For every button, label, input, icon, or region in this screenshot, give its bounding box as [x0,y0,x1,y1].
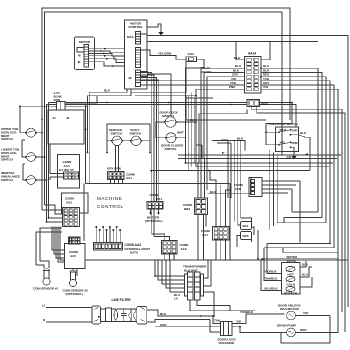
line filter input connector [92,306,101,324]
ground pressure switch [287,153,297,160]
wire left trunk 4 [49,103,64,219]
wire drain pump bottom loop [281,316,330,344]
wire door unlock motor left label [240,310,254,314]
line filter label [112,298,132,302]
wire transformer secondary right [204,260,215,316]
wire motor control JP bundle 3 [141,78,157,202]
wire motor control JP bundle 2 [141,75,155,202]
transformer T1 [174,265,207,301]
svg-text:PRESSURE SWITCH: PRESSURE SWITCH [269,122,298,126]
wire conn AA4 left stubs [50,144,64,180]
junction dots 2 [19,67,331,317]
wire motor control JP to door lock switch [148,74,172,116]
wire relay area horizontal y113.6 [199,109,247,150]
svg-text:SWITCH: SWITCH [130,132,142,136]
wire AA6 grid down links [152,234,174,260]
coin sensor 2 [63,270,89,296]
svg-text:SOLENOID: SOLENOID [219,341,236,345]
connector DD5 [241,232,252,240]
wire AA14 right stub row5 [261,73,326,223]
wire conn AA1 pins to machine control [111,180,123,184]
wire midband verticals [217,140,231,198]
svg-text:MACHINE: MACHINE [97,196,122,201]
wire AA14 stub drop verticals [201,68,207,190]
svg-text:DRAIN PUMP: DRAIN PUMP [277,324,296,328]
wire door closed right down [176,137,186,139]
wire GG2 lower pin2 long right [257,107,345,333]
svg-text:AA1: AA1 [126,176,132,180]
wire lower-inertial link [23,164,26,180]
wire pressure switch lower contact [291,147,295,153]
svg-text:EE4: EE4 [243,224,249,228]
wire AA14 left stub row6 [141,77,245,81]
wire GG2 lower pin1 long right [251,107,342,313]
door lock solenoid L1 [218,322,237,346]
wire y140 stub [212,137,245,151]
ground chassis arrow [158,28,163,36]
wire EE4 DD5 links [237,227,254,247]
fuse F1 label [54,91,63,102]
wire AA14 right stub row7 [261,81,334,248]
wire AA14 left stub row8 [196,85,245,95]
wire left trunk 3 [47,105,64,223]
connector CONN AA8 [234,178,262,197]
line filter oval capacitor [114,309,118,322]
machine control box right edge [229,184,231,261]
machine control box bottom edge [60,259,348,261]
wire AA8 stubs right [262,181,300,243]
line filter output connector [137,307,147,325]
wire service-vault links [107,140,150,142]
wire AA2 bottom bundle down [52,227,65,263]
wire long cross horizontal 1 [49,102,293,124]
wire service switch down pins [116,145,119,171]
wire long horizontal second to right edge [141,40,318,42]
svg-text:COIN SENSOR #1: COIN SENSOR #1 [33,287,59,291]
wire door lock blu down [195,122,197,167]
connector CONN AA4 box [58,155,80,189]
connector CONN AA7 [201,227,229,241]
svg-text:JP: JP [128,76,132,80]
conn AA3 label [125,243,151,255]
svg-text:BLU: BLU [302,263,308,267]
wire upper-lower link [22,140,26,157]
wire transformer feeds [155,260,185,292]
svg-text:HOT: HOT [288,273,295,277]
wire center cross right 2 [135,96,196,122]
conn AA3 test pins [95,226,121,243]
connector AA14 [245,52,263,94]
wire BLK horizontal y193.8 [208,178,252,194]
svg-text:BLK: BLK [234,56,241,60]
water valve coil hot [286,266,295,276]
wire long cross horizontal 2 [47,105,297,138]
wire right horizontal y212 [292,211,318,213]
connector CONN AA3 pins [94,243,123,251]
wire AA14 left stub row7 [141,81,245,85]
wire right horizontal y217.5 [284,218,322,223]
svg-text:YEL/GRN: YEL/GRN [158,52,171,56]
machine control box left stub [60,105,86,261]
svg-text:SWITCH: SWITCH [111,132,123,136]
coin sensor 1 [33,269,59,291]
connector CONN AA5 box [65,237,86,269]
wire motor to motor control 3 [89,53,125,57]
wire AA14 right stub row3 [261,64,318,212]
wire pressure switch right out [291,131,311,171]
wire fuse to right [65,105,88,107]
wire AA14 top left stub [234,41,245,59]
pressure switch PS1 [269,122,299,152]
wire relay area horizontal y98 [186,95,213,98]
wire door unlock motor right [295,311,330,316]
svg-text:GRY GRN: GRY GRN [107,167,121,171]
svg-text:GG2: GG2 [261,102,268,106]
wire GG2 right down [186,59,205,163]
wire center horizontal y166.8 [196,167,329,235]
wire right mid vertical bundle [235,140,252,225]
wire water valve right stubs [300,261,312,287]
water valve box [282,255,301,294]
line filter capacitor [121,309,127,322]
svg-text:BLK: BLK [104,88,111,92]
svg-text:AA5: AA5 [70,254,76,258]
svg-text:VIO/BLK: VIO/BLK [265,270,278,274]
wire drain pump right [295,253,338,333]
drain pump label [277,324,296,328]
svg-text:CONTROL: CONTROL [97,204,124,209]
vault switch S4 [130,128,143,146]
wire motor control JP bundle 1 [141,73,152,202]
motor M1 [75,37,95,70]
wire motor control to ground [141,24,162,34]
wire motor control bottom left down 1 [89,89,127,184]
svg-text:N: N [43,318,45,322]
svg-text:WAX MOTOR: WAX MOTOR [280,307,300,311]
connector CONN AA2 [62,193,89,227]
buzzer optional note [145,209,163,223]
svg-text:AA2: AA2 [66,201,72,205]
svg-text:L1: L1 [42,304,46,308]
wire long bottom horizontal [155,326,240,328]
wire long horizontal upper right to right edge [141,36,348,308]
wire door lock solenoid right [232,314,284,324]
svg-text:CONTROL: CONTROL [128,25,143,29]
wire center horizontal y170.5 [150,170,310,172]
svg-text:BLU/BLK: BLU/BLK [265,287,279,291]
wire door lock solenoid left [210,316,287,332]
wire right horizontal y254.5 [258,235,338,291]
svg-text:COLD: COLD [287,283,296,287]
wire pressure switch left in 2 [266,132,279,145]
wire AA14 right stub row6 [261,77,330,244]
wire inertial to trunk [36,179,46,181]
wire top loop outer [42,8,290,210]
wire right horizontal y247 [264,248,334,281]
wire AA14 right stub row4 [261,68,322,217]
wire AA14 left stub row3 [201,64,245,68]
connector GG2 (upper) [186,52,197,62]
connector EE4 [241,222,252,230]
wire yel/grn to GG2 [141,50,187,59]
wire AA5 to coin sensor 1 [36,228,62,268]
wire filter output top [147,310,213,316]
wire door closed area verticals [196,145,202,163]
connector CONN BB3 [183,198,208,215]
wire door lock switch right [177,118,197,122]
connector CONN AA6 [162,241,189,255]
svg-text:J1: J1 [53,116,57,120]
wire AA7 verticals down [216,239,226,260]
svg-text:BLU: BLU [302,273,308,277]
svg-text:VIO: VIO [236,320,242,324]
wire motor to motor control 4 [89,55,125,59]
wire pressure switch left in 1 [266,124,292,133]
svg-text:BOARD: BOARD [201,70,213,74]
motor control U1 [125,20,148,89]
wire top loop inner [45,12,283,205]
wire BB3 below down [198,215,206,261]
wire upper tub to trunk [20,132,42,134]
door closed switch S2 [161,131,184,152]
svg-text:DATA: DATA [130,251,139,255]
svg-text:BLK: BLK [210,190,217,194]
inertial unbalance switch S7 [1,171,37,185]
wire AA14 left stub row4 [204,68,245,72]
svg-text:VIO: VIO [303,311,309,315]
svg-text:GRY: GRY [292,129,298,133]
svg-text:J2: J2 [66,116,70,120]
svg-text:LINE FILTER: LINE FILTER [112,298,132,302]
wire motor control bottom left down 2 [88,89,132,153]
wire center cross right 1 [104,62,186,93]
wire filter output bottom [147,320,210,328]
connector CONN DD1 [147,193,163,209]
wire DD1 down links [152,209,154,237]
label YEL/GRN [158,52,171,56]
line filter block [106,308,112,322]
motor control header JP [128,70,148,87]
svg-text:VIO: VIO [263,85,269,89]
wire door lock to door closed loop [156,122,166,138]
svg-text:BLK: BLK [237,137,244,141]
wire AA7 verticals up [210,171,230,227]
water valve coil bleach [285,286,298,295]
motor control header MAA [127,32,141,45]
wire N feed [43,318,92,322]
junction box J1 J2 [48,110,84,144]
wire motor to motor control 2 [89,50,125,53]
service switch S3 [109,128,123,146]
wire motor control JP bundle 4 [141,80,159,202]
door unlock wax motor label [278,304,301,312]
svg-text:PNK: PNK [292,141,299,145]
svg-text:(OPTIONAL): (OPTIONAL) [66,292,84,296]
svg-text:AA7: AA7 [202,233,208,237]
svg-text:SWITCH: SWITCH [1,178,13,182]
svg-text:BLK: BLK [300,131,307,135]
svg-text:SWITCH: SWITCH [165,147,177,151]
svg-text:VIO: VIO [280,141,286,145]
water valve coil cold [286,276,296,286]
wire center horizontal y163 [185,162,333,164]
water valve left stubs [265,270,279,291]
wire motor to motor control 1 [89,48,125,50]
wire fuse feed from left [20,106,57,132]
upper tub displacement switch S5 [1,127,37,141]
wire relay area horizontal y120 [186,98,266,120]
connector GG2 (lower) [247,100,268,107]
wire above fuse [65,96,97,103]
wire service vault loop top [107,124,150,153]
wire L1 feed [42,304,92,310]
wire transformer bottom drops [190,300,255,311]
lower tub displacement switch S6 [1,148,37,162]
door lock switch S1 [160,111,179,128]
svg-text:DD5: DD5 [243,234,249,238]
wire AA5 to coin sensor 2 [73,269,78,276]
line filter inductor [129,309,136,322]
door unlock sol motor [287,311,296,320]
wire AA14 left stub row5 [207,73,245,77]
drain pump P1 [287,328,296,337]
svg-text:SWITCH: SWITCH [1,137,13,141]
svg-text:GG2: GG2 [188,52,195,56]
wire AA14 right stub row1 [261,41,270,59]
fuse F1 [57,102,65,112]
wire trunk into AA2 top [42,205,63,214]
wire motor to motor control 6 [89,62,125,67]
svg-text:BLEACH: BLEACH [285,291,298,295]
svg-text:BB3: BB3 [184,207,190,211]
svg-text:MOTOR: MOTOR [79,40,91,44]
wire right horizontal y242.5 [267,243,330,273]
svg-text:GY WH VT: GY WH VT [59,168,74,172]
svg-text:PNK: PNK [229,85,236,89]
svg-text:WHT: WHT [280,128,287,132]
motor control header center [136,48,141,68]
wire center horizontal y158.5 [178,158,337,160]
wire motor to motor control 5 [89,58,125,63]
wire direction arrows [41,102,308,318]
svg-text:SWITCH: SWITCH [1,158,13,162]
wire right bundle from AA8 area [270,150,277,230]
line filter rails [101,309,137,322]
svg-text:MAA: MAA [127,35,135,39]
wire right horizontal y222.6 [277,222,326,224]
connector CONN AA1 [107,167,135,181]
svg-text:AA14: AA14 [248,52,256,56]
svg-text:AA6: AA6 [181,247,187,251]
svg-text:TAN/BLK: TAN/BLK [265,277,279,281]
svg-text:TAN: TAN [214,319,220,323]
wire AA14 right stub row8 [261,85,338,253]
svg-text:WHT: WHT [300,328,307,332]
relay board label [201,66,213,74]
wire BB3 feeds from above [188,92,204,198]
machine control box top edge [86,183,231,185]
svg-text:BLK: BLK [160,312,167,316]
svg-text:DD1: DD1 [156,197,162,201]
wire center horizontal y155 [178,68,341,155]
wire lower tub to trunk [36,156,44,158]
svg-text:WHT: WHT [177,131,184,135]
machine control label [97,196,124,209]
